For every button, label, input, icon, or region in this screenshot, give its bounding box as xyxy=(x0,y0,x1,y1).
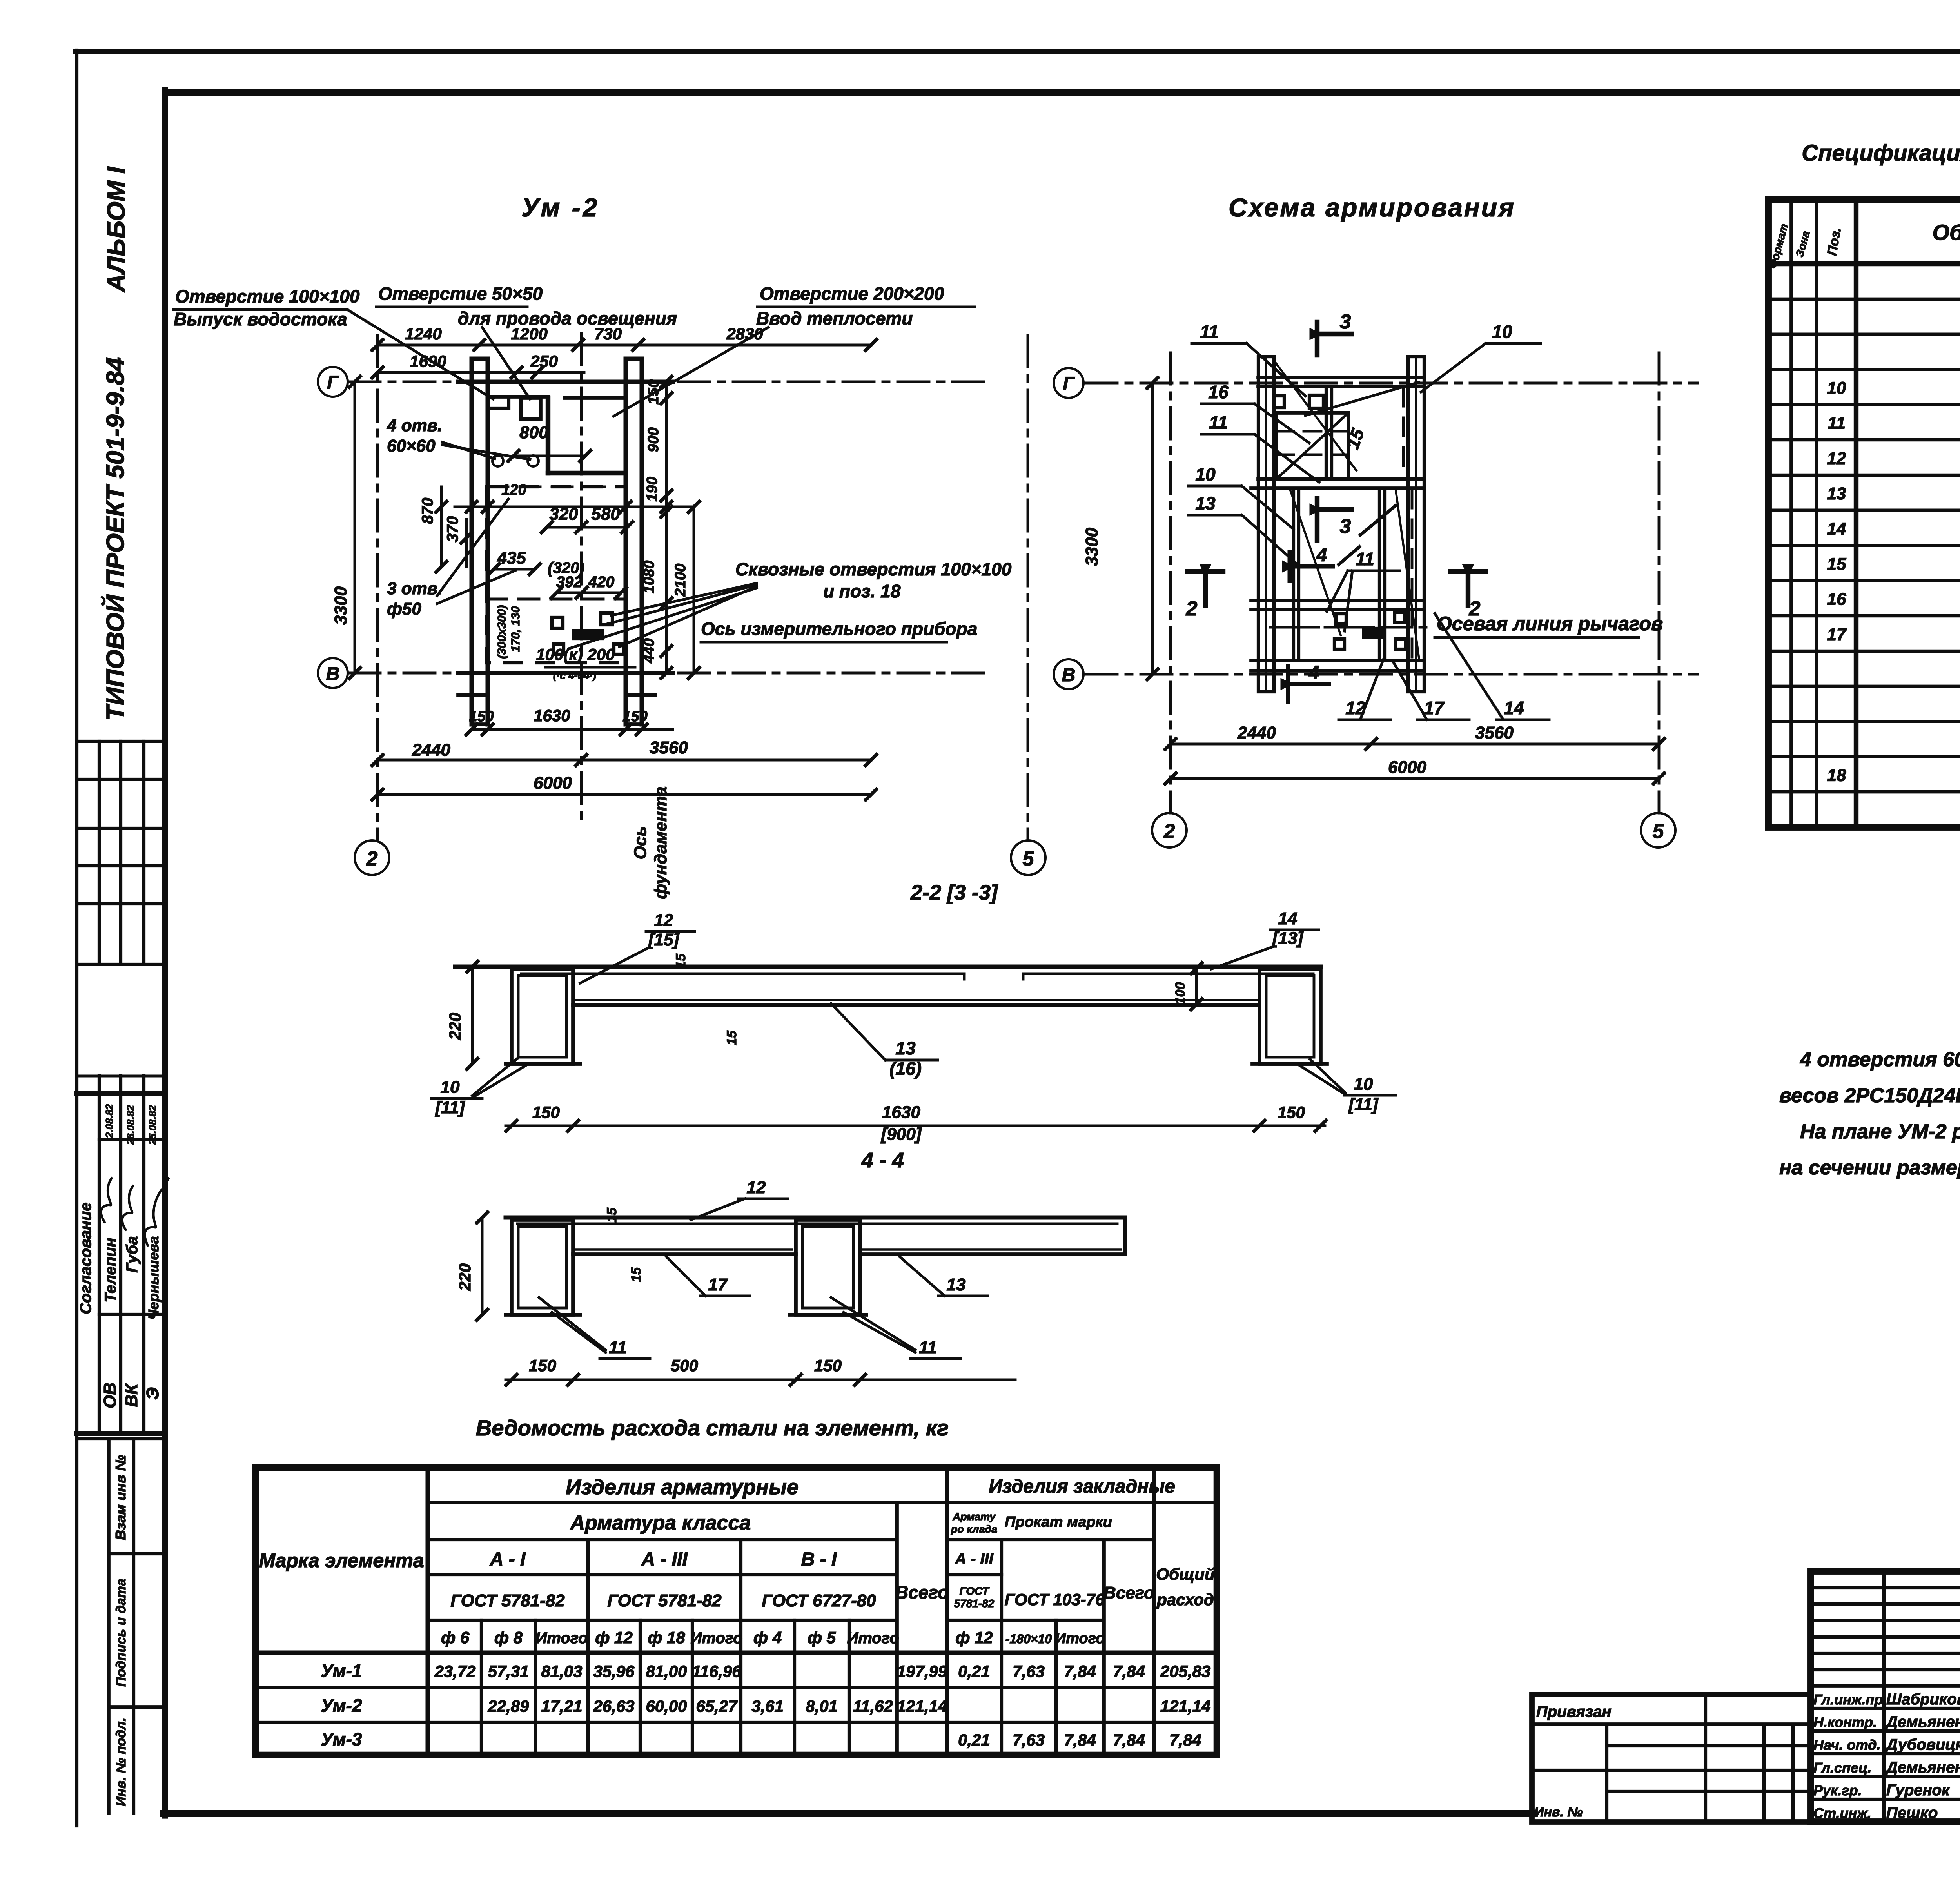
svg-text:800: 800 xyxy=(519,423,548,442)
scheme small squares bottom xyxy=(1336,614,1346,624)
svg-text:Взам инв №: Взам инв № xyxy=(113,1455,129,1540)
svg-text:Изделия арматурные: Изделия арматурные xyxy=(566,1475,799,1499)
svg-text:[11]: [11] xyxy=(435,1098,465,1117)
svg-text:Г: Г xyxy=(1063,374,1075,394)
svg-text:ГОСТ 5781-82: ГОСТ 5781-82 xyxy=(450,1591,565,1610)
steel table horizontals xyxy=(428,1501,1217,1504)
plan leader to 200x200 opening xyxy=(613,327,768,416)
svg-text:Итого: Итого xyxy=(535,1629,588,1647)
plan top dimension line 6000 split xyxy=(377,344,871,347)
scheme inner vertical top xyxy=(1325,386,1328,479)
title block name rows xyxy=(1811,1707,1960,1710)
scheme right column xyxy=(1408,357,1424,692)
svg-text:[11]: [11] xyxy=(1348,1095,1379,1114)
plan dim line 870 370 xyxy=(440,487,443,567)
svg-text:12: 12 xyxy=(747,1178,766,1197)
section 2-2 left end block xyxy=(512,969,573,1064)
svg-text:3: 3 xyxy=(1340,310,1351,333)
svg-text:15: 15 xyxy=(629,1267,644,1282)
svg-text:А - I: А - I xyxy=(490,1549,526,1570)
section 4-4 mid block xyxy=(796,1220,860,1315)
svg-text:Г: Г xyxy=(327,372,339,393)
svg-text:Н.контр.: Н.контр. xyxy=(1813,1714,1877,1730)
scheme section mark 2 right xyxy=(1450,569,1486,574)
svg-text:На плане УМ-2 размеры в кр: На плане УМ-2 размеры в круглых скобках … xyxy=(1800,1120,1960,1143)
svg-text:16: 16 xyxy=(1208,382,1229,402)
svg-text:65,27: 65,27 xyxy=(696,1697,738,1715)
svg-text:3300: 3300 xyxy=(1082,528,1102,566)
svg-text:12: 12 xyxy=(1827,449,1846,468)
svg-text:1080: 1080 xyxy=(641,561,657,594)
svg-text:60,00: 60,00 xyxy=(646,1697,687,1715)
plan anchor bar xyxy=(574,631,603,639)
svg-text:11: 11 xyxy=(1209,412,1228,433)
svg-text:ф 5: ф 5 xyxy=(808,1628,836,1647)
svg-text:4 отв.: 4 отв. xyxy=(387,416,443,435)
svg-text:13: 13 xyxy=(1195,493,1216,514)
scheme section mark 4 mid xyxy=(1288,552,1292,581)
svg-text:435: 435 xyxy=(497,548,526,568)
svg-text:17: 17 xyxy=(708,1275,728,1294)
svg-text:для провода освещения: для провода освещения xyxy=(458,308,677,328)
svg-text:150: 150 xyxy=(645,379,662,404)
svg-text:Армату: Армату xyxy=(953,1511,996,1522)
svg-text:В - I: В - I xyxy=(801,1549,837,1570)
plan horizontal dim line mid xyxy=(455,506,694,508)
section 2-2 right end block xyxy=(1259,969,1321,1064)
svg-text:8,01: 8,01 xyxy=(806,1697,838,1715)
svg-text:81,03: 81,03 xyxy=(541,1662,582,1680)
scheme label osevaya liniya rychagov xyxy=(1270,626,1435,629)
svg-text:А - III: А - III xyxy=(641,1549,688,1570)
svg-text:Дубовицкая: Дубовицкая xyxy=(1885,1736,1960,1753)
svg-text:100(к) 200: 100(к) 200 xyxy=(536,645,615,664)
svg-text:150: 150 xyxy=(1278,1103,1305,1121)
svg-text:11,62: 11,62 xyxy=(853,1697,893,1715)
plan right vertical dim line xyxy=(665,382,668,673)
plan leader to 100x100 hole xyxy=(347,310,493,399)
svg-text:Арматура класса: Арматура класса xyxy=(570,1512,751,1534)
spec table frame xyxy=(1768,200,1960,827)
svg-text:15: 15 xyxy=(673,953,688,969)
plan pit dashed rectangle xyxy=(486,487,626,663)
svg-text:4: 4 xyxy=(1308,662,1319,683)
svg-text:420: 420 xyxy=(588,573,615,591)
svg-text:(300х300): (300х300) xyxy=(495,605,508,659)
svg-text:Всего: Всего xyxy=(895,1582,949,1602)
svg-text:190: 190 xyxy=(644,477,661,501)
svg-text:11: 11 xyxy=(1828,414,1846,433)
svg-text:121,14: 121,14 xyxy=(1160,1697,1210,1715)
svg-text:4 - 4: 4 - 4 xyxy=(861,1149,904,1172)
svg-text:580: 580 xyxy=(591,504,620,524)
section 2-2 top rebar right xyxy=(1023,973,1313,975)
section 4-4 top rebar xyxy=(517,1223,1117,1225)
section 2-2 dim 220 xyxy=(471,967,474,1064)
svg-text:[900]: [900] xyxy=(880,1125,922,1144)
svg-text:100: 100 xyxy=(1173,982,1188,1005)
plan pit inner dashed lines xyxy=(488,486,626,488)
axis circle G plan xyxy=(318,367,348,397)
svg-text:ОВ: ОВ xyxy=(100,1383,120,1408)
left strip small grid xyxy=(77,740,163,743)
svg-text:2440: 2440 xyxy=(1237,723,1276,742)
plan right wall xyxy=(624,359,628,724)
svg-text:13: 13 xyxy=(895,1038,916,1058)
svg-text:13: 13 xyxy=(947,1275,966,1294)
svg-text:4: 4 xyxy=(1316,545,1327,566)
svg-text:(16): (16) xyxy=(889,1058,922,1079)
scheme third chord xyxy=(1251,599,1424,602)
svg-text:150: 150 xyxy=(469,708,494,725)
svg-text:900: 900 xyxy=(645,427,662,452)
svg-text:10: 10 xyxy=(1195,464,1216,484)
svg-text:Привязан: Привязан xyxy=(1536,1703,1612,1720)
section 4-4 slab top xyxy=(506,1216,1125,1220)
scheme top-left cage rect xyxy=(1276,413,1348,479)
svg-text:Выпуск водостока: Выпуск водостока xyxy=(174,309,347,329)
svg-text:870: 870 xyxy=(419,498,436,524)
svg-text:Сквозные отверстия 100×100: Сквозные отверстия 100×100 xyxy=(735,559,1012,579)
svg-text:3,61: 3,61 xyxy=(751,1697,784,1715)
svg-text:11: 11 xyxy=(919,1338,937,1357)
svg-text:ГОСТ 6727-80: ГОСТ 6727-80 xyxy=(762,1591,876,1610)
plan bottom slab edge xyxy=(458,671,673,675)
sheet outer border top xyxy=(76,49,1960,54)
svg-text:60×60: 60×60 xyxy=(387,436,436,455)
svg-text:35,96: 35,96 xyxy=(593,1662,635,1680)
svg-text:220: 220 xyxy=(456,1263,474,1291)
svg-text:5: 5 xyxy=(1023,847,1034,870)
svg-text:Ум-1: Ум-1 xyxy=(321,1660,362,1681)
svg-text:Итого: Итого xyxy=(690,1629,742,1647)
svg-text:А - III: А - III xyxy=(955,1550,994,1568)
svg-text:150: 150 xyxy=(529,1356,556,1375)
scheme axis 5 vertical xyxy=(1658,353,1661,813)
spec table verticals xyxy=(1789,200,1793,827)
svg-text:7,84: 7,84 xyxy=(1113,1662,1145,1680)
plan wall feet xyxy=(458,693,488,697)
svg-text:15: 15 xyxy=(604,1207,619,1223)
svg-text:4 отверстия 60×60 и 3 отвер: 4 отверстия 60×60 и 3 отверстия ф50 выпо… xyxy=(1800,1048,1960,1071)
scheme dashed verticals xyxy=(1402,388,1405,476)
plan axis circle 2 xyxy=(355,840,389,875)
scheme bottom chord xyxy=(1251,659,1424,662)
svg-text:1200: 1200 xyxy=(511,325,547,343)
svg-text:13: 13 xyxy=(1827,484,1846,503)
svg-text:Рук.гр.: Рук.гр. xyxy=(1813,1782,1862,1798)
svg-text:Губа: Губа xyxy=(123,1236,141,1272)
svg-text:150: 150 xyxy=(622,708,647,725)
plan axis 5 vertical line xyxy=(1027,335,1029,839)
title block main frame xyxy=(1811,1571,1960,1822)
svg-text:ф 6: ф 6 xyxy=(441,1628,470,1647)
plan leader to 50x50 hole xyxy=(482,327,530,399)
scheme axis 2 vertical xyxy=(1169,353,1172,813)
svg-text:6000: 6000 xyxy=(534,773,572,793)
section 4-4 slab bottoms xyxy=(573,1252,796,1256)
scheme axis circle V xyxy=(1054,659,1083,689)
svg-text:Прокат марки: Прокат марки xyxy=(1005,1514,1112,1530)
svg-text:Пешко: Пешко xyxy=(1886,1804,1938,1822)
svg-text:116,96: 116,96 xyxy=(692,1662,741,1680)
steel table main verticals xyxy=(426,1468,430,1755)
plan slab second edge xyxy=(488,395,548,399)
scheme top chord xyxy=(1258,376,1424,379)
svg-text:ф 12: ф 12 xyxy=(595,1628,633,1647)
svg-text:ГОСТ 5781-82: ГОСТ 5781-82 xyxy=(607,1591,722,1610)
axis line G plan xyxy=(349,381,984,383)
svg-text:16: 16 xyxy=(1827,590,1846,609)
scheme mid dashed lines xyxy=(1274,626,1407,629)
svg-text:7,63: 7,63 xyxy=(1013,1731,1045,1749)
title block extension box xyxy=(1532,1695,1811,1822)
svg-text:Всего: Всего xyxy=(1103,1583,1154,1602)
svg-text:1630: 1630 xyxy=(882,1103,920,1122)
svg-text:[13]: [13] xyxy=(1272,929,1304,948)
scheme section mark 3 top xyxy=(1315,322,1319,355)
svg-text:3560: 3560 xyxy=(650,738,688,757)
svg-text:81,00: 81,00 xyxy=(646,1662,687,1680)
svg-text:17: 17 xyxy=(1424,698,1445,718)
section 4-4 dim 220 xyxy=(481,1218,484,1315)
svg-text:Отверстие 200×200: Отверстие 200×200 xyxy=(760,283,944,304)
svg-text:Чернышева: Чернышева xyxy=(145,1236,162,1319)
svg-text:2-2 [3 -3]: 2-2 [3 -3] xyxy=(910,881,998,904)
svg-text:1240: 1240 xyxy=(405,325,441,343)
scheme left column xyxy=(1258,357,1274,692)
plan hole 50x50 xyxy=(521,398,541,419)
svg-text:2: 2 xyxy=(366,847,378,870)
svg-text:Э: Э xyxy=(143,1387,162,1400)
plan top-left niche xyxy=(488,397,509,408)
scheme top-left small squares xyxy=(1274,396,1284,408)
svg-text:ро клада: ро клада xyxy=(951,1523,997,1535)
svg-text:2: 2 xyxy=(1186,597,1198,620)
svg-text:расход: расход xyxy=(1156,1590,1214,1609)
svg-text:10: 10 xyxy=(1827,378,1846,397)
svg-text:весов 2РС150Д24В.: весов 2РС150Д24В. xyxy=(1779,1084,1960,1107)
svg-text:-180×10: -180×10 xyxy=(1005,1632,1052,1646)
section 2-2 dim 100 xyxy=(1195,968,1198,1004)
plan opening 200x200 vvod teploseti xyxy=(546,398,550,473)
svg-text:15: 15 xyxy=(1827,554,1846,573)
svg-text:14: 14 xyxy=(1504,698,1524,718)
plan small square holes bottom xyxy=(552,617,563,628)
svg-text:Итого: Итого xyxy=(1055,1630,1105,1647)
svg-text:Демьяненко: Демьяненко xyxy=(1885,1759,1960,1776)
section 2-2 slab bottom xyxy=(573,1003,1259,1007)
svg-text:250: 250 xyxy=(530,352,558,370)
svg-text:Итого: Итого xyxy=(847,1629,899,1647)
svg-text:Гуренок: Гуренок xyxy=(1886,1782,1950,1799)
svg-text:Телепин: Телепин xyxy=(102,1238,119,1302)
plan center line os fundamenta xyxy=(580,333,583,827)
svg-text:В: В xyxy=(1062,665,1076,686)
svg-text:Гл.инж.пр.: Гл.инж.пр. xyxy=(1813,1691,1887,1707)
scheme axis circle G xyxy=(1054,368,1083,398)
left strip lower cells frame xyxy=(107,1439,111,1813)
svg-text:7,84: 7,84 xyxy=(1169,1731,1201,1749)
plan left wall xyxy=(470,359,474,724)
svg-text:26,63: 26,63 xyxy=(593,1697,634,1715)
svg-text:26.08.82: 26.08.82 xyxy=(125,1105,136,1145)
spec table header bottom xyxy=(1768,261,1960,266)
scheme axis line G xyxy=(1086,382,1697,385)
svg-text:Ум-3: Ум-3 xyxy=(321,1729,362,1749)
section 4-4 left end block xyxy=(512,1220,573,1315)
scheme long leaders xyxy=(1274,361,1356,470)
section 4-4 bottom rebar xyxy=(576,1248,792,1251)
drawing frame top xyxy=(165,89,1960,96)
svg-text:11: 11 xyxy=(1356,549,1374,569)
svg-text:Спецификация монолитных железо: Спецификация монолитных железобетонных у… xyxy=(1802,140,1960,166)
svg-text:ф 8: ф 8 xyxy=(494,1628,523,1647)
svg-text:197,99: 197,99 xyxy=(897,1662,947,1680)
svg-text:3: 3 xyxy=(1340,515,1351,538)
svg-text:Ум -2: Ум -2 xyxy=(522,193,600,222)
svg-text:Отверстие 50×50: Отверстие 50×50 xyxy=(378,283,543,304)
axis line V plan xyxy=(349,672,984,675)
svg-text:ГОСТ 103-76: ГОСТ 103-76 xyxy=(1005,1590,1105,1609)
svg-text:Гл.спец.: Гл.спец. xyxy=(1813,1760,1871,1776)
svg-text:2100: 2100 xyxy=(672,564,689,597)
section 2-2 slab top xyxy=(455,965,1321,969)
scheme anchor bar xyxy=(1364,628,1383,637)
axis circle V plan xyxy=(318,658,348,688)
svg-text:Демьяненко: Демьяненко xyxy=(1885,1713,1960,1731)
svg-text:150: 150 xyxy=(814,1356,842,1375)
svg-text:1630: 1630 xyxy=(534,706,570,725)
sheet outer border left xyxy=(75,50,78,1826)
plan dimension line 1690 250 xyxy=(377,371,584,374)
svg-text:5: 5 xyxy=(1653,820,1664,843)
svg-text:7,63: 7,63 xyxy=(1013,1662,1045,1680)
drawing frame left xyxy=(162,90,168,1816)
svg-text:2: 2 xyxy=(1163,820,1175,843)
svg-text:Инв. №: Инв. № xyxy=(1534,1805,1583,1820)
title block left rows upper xyxy=(1811,1586,1960,1589)
plan right vertical dim line 2100 xyxy=(693,507,695,673)
svg-text:170, 130: 170, 130 xyxy=(509,606,522,652)
svg-text:Инв. № подл.: Инв. № подл. xyxy=(114,1718,129,1806)
svg-text:1690: 1690 xyxy=(410,352,446,370)
svg-text:2440: 2440 xyxy=(412,740,450,760)
svg-text:2830: 2830 xyxy=(726,325,763,343)
svg-text:11: 11 xyxy=(1200,321,1219,342)
svg-text:Ось измерительного прибора: Ось измерительного прибора xyxy=(701,619,977,639)
svg-text:7,84: 7,84 xyxy=(1064,1731,1096,1749)
svg-text:10: 10 xyxy=(441,1078,460,1097)
svg-text:7,84: 7,84 xyxy=(1113,1731,1145,1749)
svg-text:Нач. отд.: Нач. отд. xyxy=(1813,1737,1880,1753)
svg-text:ГОСТ: ГОСТ xyxy=(960,1585,990,1597)
svg-text:205,83: 205,83 xyxy=(1160,1662,1210,1680)
svg-text:17: 17 xyxy=(1827,625,1847,644)
scheme mid diagonal dashes xyxy=(1360,506,1396,535)
steel table sub verticals xyxy=(480,1620,483,1755)
svg-text:7,84: 7,84 xyxy=(1064,1662,1096,1680)
plan slab top edge xyxy=(458,380,673,384)
svg-text:57,31: 57,31 xyxy=(488,1662,529,1680)
svg-text:10: 10 xyxy=(1492,321,1512,342)
svg-text:18: 18 xyxy=(1827,766,1846,785)
scheme second chord xyxy=(1258,477,1424,481)
scheme inner vertical left xyxy=(1292,488,1295,660)
svg-text:ф 4: ф 4 xyxy=(753,1628,782,1647)
scheme section mark 2 left xyxy=(1188,569,1223,574)
svg-text:5781-82: 5781-82 xyxy=(954,1597,995,1609)
scheme axis line V xyxy=(1086,673,1697,676)
svg-text:3560: 3560 xyxy=(1475,723,1514,742)
drawing frame bottom xyxy=(163,1810,1534,1817)
svg-text:6000: 6000 xyxy=(1388,758,1426,777)
scheme section mark 4 bottom xyxy=(1286,666,1290,702)
svg-text:Ум-2: Ум-2 xyxy=(321,1695,362,1716)
svg-text:ф50: ф50 xyxy=(387,599,421,619)
svg-text:В: В xyxy=(326,664,340,684)
svg-text:730: 730 xyxy=(594,325,622,343)
svg-text:0,21: 0,21 xyxy=(958,1662,990,1680)
svg-text:15: 15 xyxy=(724,1030,739,1045)
svg-text:Осевая линия рычагов: Осевая линия рычагов xyxy=(1437,613,1663,635)
svg-text:[15]: [15] xyxy=(648,930,680,949)
svg-text:ТИПОВОЙ ПРОЕКТ 501-9-9.84: ТИПОВОЙ ПРОЕКТ 501-9-9.84 xyxy=(100,357,129,721)
svg-text:25.08.82: 25.08.82 xyxy=(147,1105,158,1145)
svg-text:220: 220 xyxy=(446,1013,464,1040)
svg-text:ВК: ВК xyxy=(122,1383,141,1407)
scheme axis circle 2 xyxy=(1152,813,1187,847)
svg-text:14: 14 xyxy=(1827,519,1846,539)
svg-text:Ст.инж.: Ст.инж. xyxy=(1813,1805,1871,1821)
scheme inner vertical right xyxy=(1378,488,1381,660)
svg-text:3 отв.: 3 отв. xyxy=(387,579,443,598)
svg-text:ф 18: ф 18 xyxy=(648,1628,685,1647)
svg-text:Ведомость расхода стали на: Ведомость расхода стали на элемент, кг xyxy=(476,1415,949,1440)
svg-text:Общий: Общий xyxy=(1156,1565,1214,1583)
svg-text:Ввод теплосети: Ввод теплосети xyxy=(756,308,913,328)
svg-text:17,21: 17,21 xyxy=(541,1697,582,1715)
svg-text:Схема армирования: Схема армирования xyxy=(1229,193,1515,222)
svg-text:12: 12 xyxy=(654,911,673,930)
svg-text:3300: 3300 xyxy=(331,586,350,625)
svg-text:120: 120 xyxy=(501,482,526,498)
svg-text:10: 10 xyxy=(1354,1074,1373,1094)
scheme vertical dim 3300 xyxy=(1151,383,1154,674)
svg-text:Шабриков: Шабриков xyxy=(1886,1691,1960,1708)
svg-text:и поз. 18: и поз. 18 xyxy=(823,581,901,601)
plan vertical dimension 3300 xyxy=(354,382,356,673)
plan axis 2 vertical line xyxy=(376,335,379,839)
svg-text:Изделия закладные: Изделия закладные xyxy=(989,1476,1175,1497)
svg-text:440: 440 xyxy=(641,638,657,663)
svg-text:23,72: 23,72 xyxy=(434,1662,475,1680)
plan axis circle 5 xyxy=(1011,840,1045,875)
svg-text:на сечении размеры в квадра: на сечении размеры в квадратных скобках … xyxy=(1779,1156,1960,1179)
svg-text:Отверстие 100×100: Отверстие 100×100 xyxy=(175,286,360,307)
svg-text:ф 12: ф 12 xyxy=(955,1628,993,1647)
svg-text:Марка элемента: Марка элемента xyxy=(259,1550,424,1571)
svg-text:2.08.82: 2.08.82 xyxy=(103,1104,115,1138)
steel table frame xyxy=(256,1468,1217,1755)
svg-text:121,14: 121,14 xyxy=(897,1697,947,1715)
svg-text:22,89: 22,89 xyxy=(487,1697,529,1715)
svg-text:14: 14 xyxy=(1278,909,1298,928)
svg-text:500: 500 xyxy=(671,1356,698,1375)
approval block frame xyxy=(77,1091,163,1096)
svg-text:фундамента: фундамента xyxy=(651,786,670,899)
svg-text:150: 150 xyxy=(532,1103,560,1121)
